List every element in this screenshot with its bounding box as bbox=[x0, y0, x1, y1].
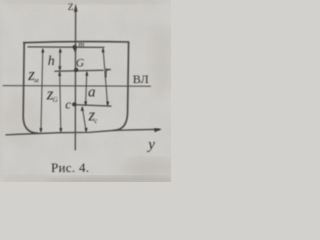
svg-text:y: y bbox=[146, 137, 155, 153]
svg-text:h: h bbox=[48, 54, 55, 69]
hull top edge bbox=[24, 42, 129, 43]
z_c arrows bbox=[81, 106, 84, 111]
m level line bbox=[28, 46, 104, 49]
h arrows bbox=[59, 48, 62, 53]
point G dot bbox=[74, 68, 78, 72]
z_G arrows bbox=[58, 71, 61, 76]
hull right side with bilge curve bbox=[114, 42, 129, 130]
dimension line a bbox=[86, 72, 87, 105]
Z axis arrowhead bbox=[74, 4, 78, 12]
scan smudges bbox=[0, 0, 185, 186]
paper background bbox=[0, 0, 171, 182]
arrowheads bbox=[39, 4, 162, 133]
point C dot bbox=[72, 102, 76, 106]
svg-text:Рис. 4.: Рис. 4. bbox=[51, 160, 89, 175]
point m dot bbox=[73, 45, 77, 49]
dimension line h bbox=[59, 50, 61, 70]
y axis arrowhead bbox=[154, 128, 162, 132]
svg-text:a: a bbox=[88, 85, 96, 101]
label r bbox=[106, 69, 111, 77]
a arrows bbox=[85, 71, 88, 76]
svg-text:m: m bbox=[78, 39, 84, 49]
z_m arrows bbox=[41, 48, 44, 53]
svg-text:c: c bbox=[65, 97, 71, 112]
r arrows bbox=[101, 48, 104, 53]
C level line bbox=[74, 105, 112, 107]
hull left side with bilge curve bbox=[23, 42, 38, 133]
dimension line z_m bbox=[41, 50, 43, 132]
dimension line r bbox=[103, 49, 108, 105]
baseline / keel line continuing as y axis bbox=[6, 129, 160, 135]
svg-text:ВЛ: ВЛ bbox=[133, 72, 149, 86]
dimension line z_G bbox=[60, 72, 61, 131]
waterline bbox=[3, 85, 150, 88]
svg-text:G: G bbox=[76, 58, 85, 70]
dimension line z_c bbox=[82, 107, 86, 131]
svg-text:Z: Z bbox=[68, 3, 74, 13]
G level line bbox=[55, 69, 103, 72]
Z axis bbox=[74, 11, 76, 150]
